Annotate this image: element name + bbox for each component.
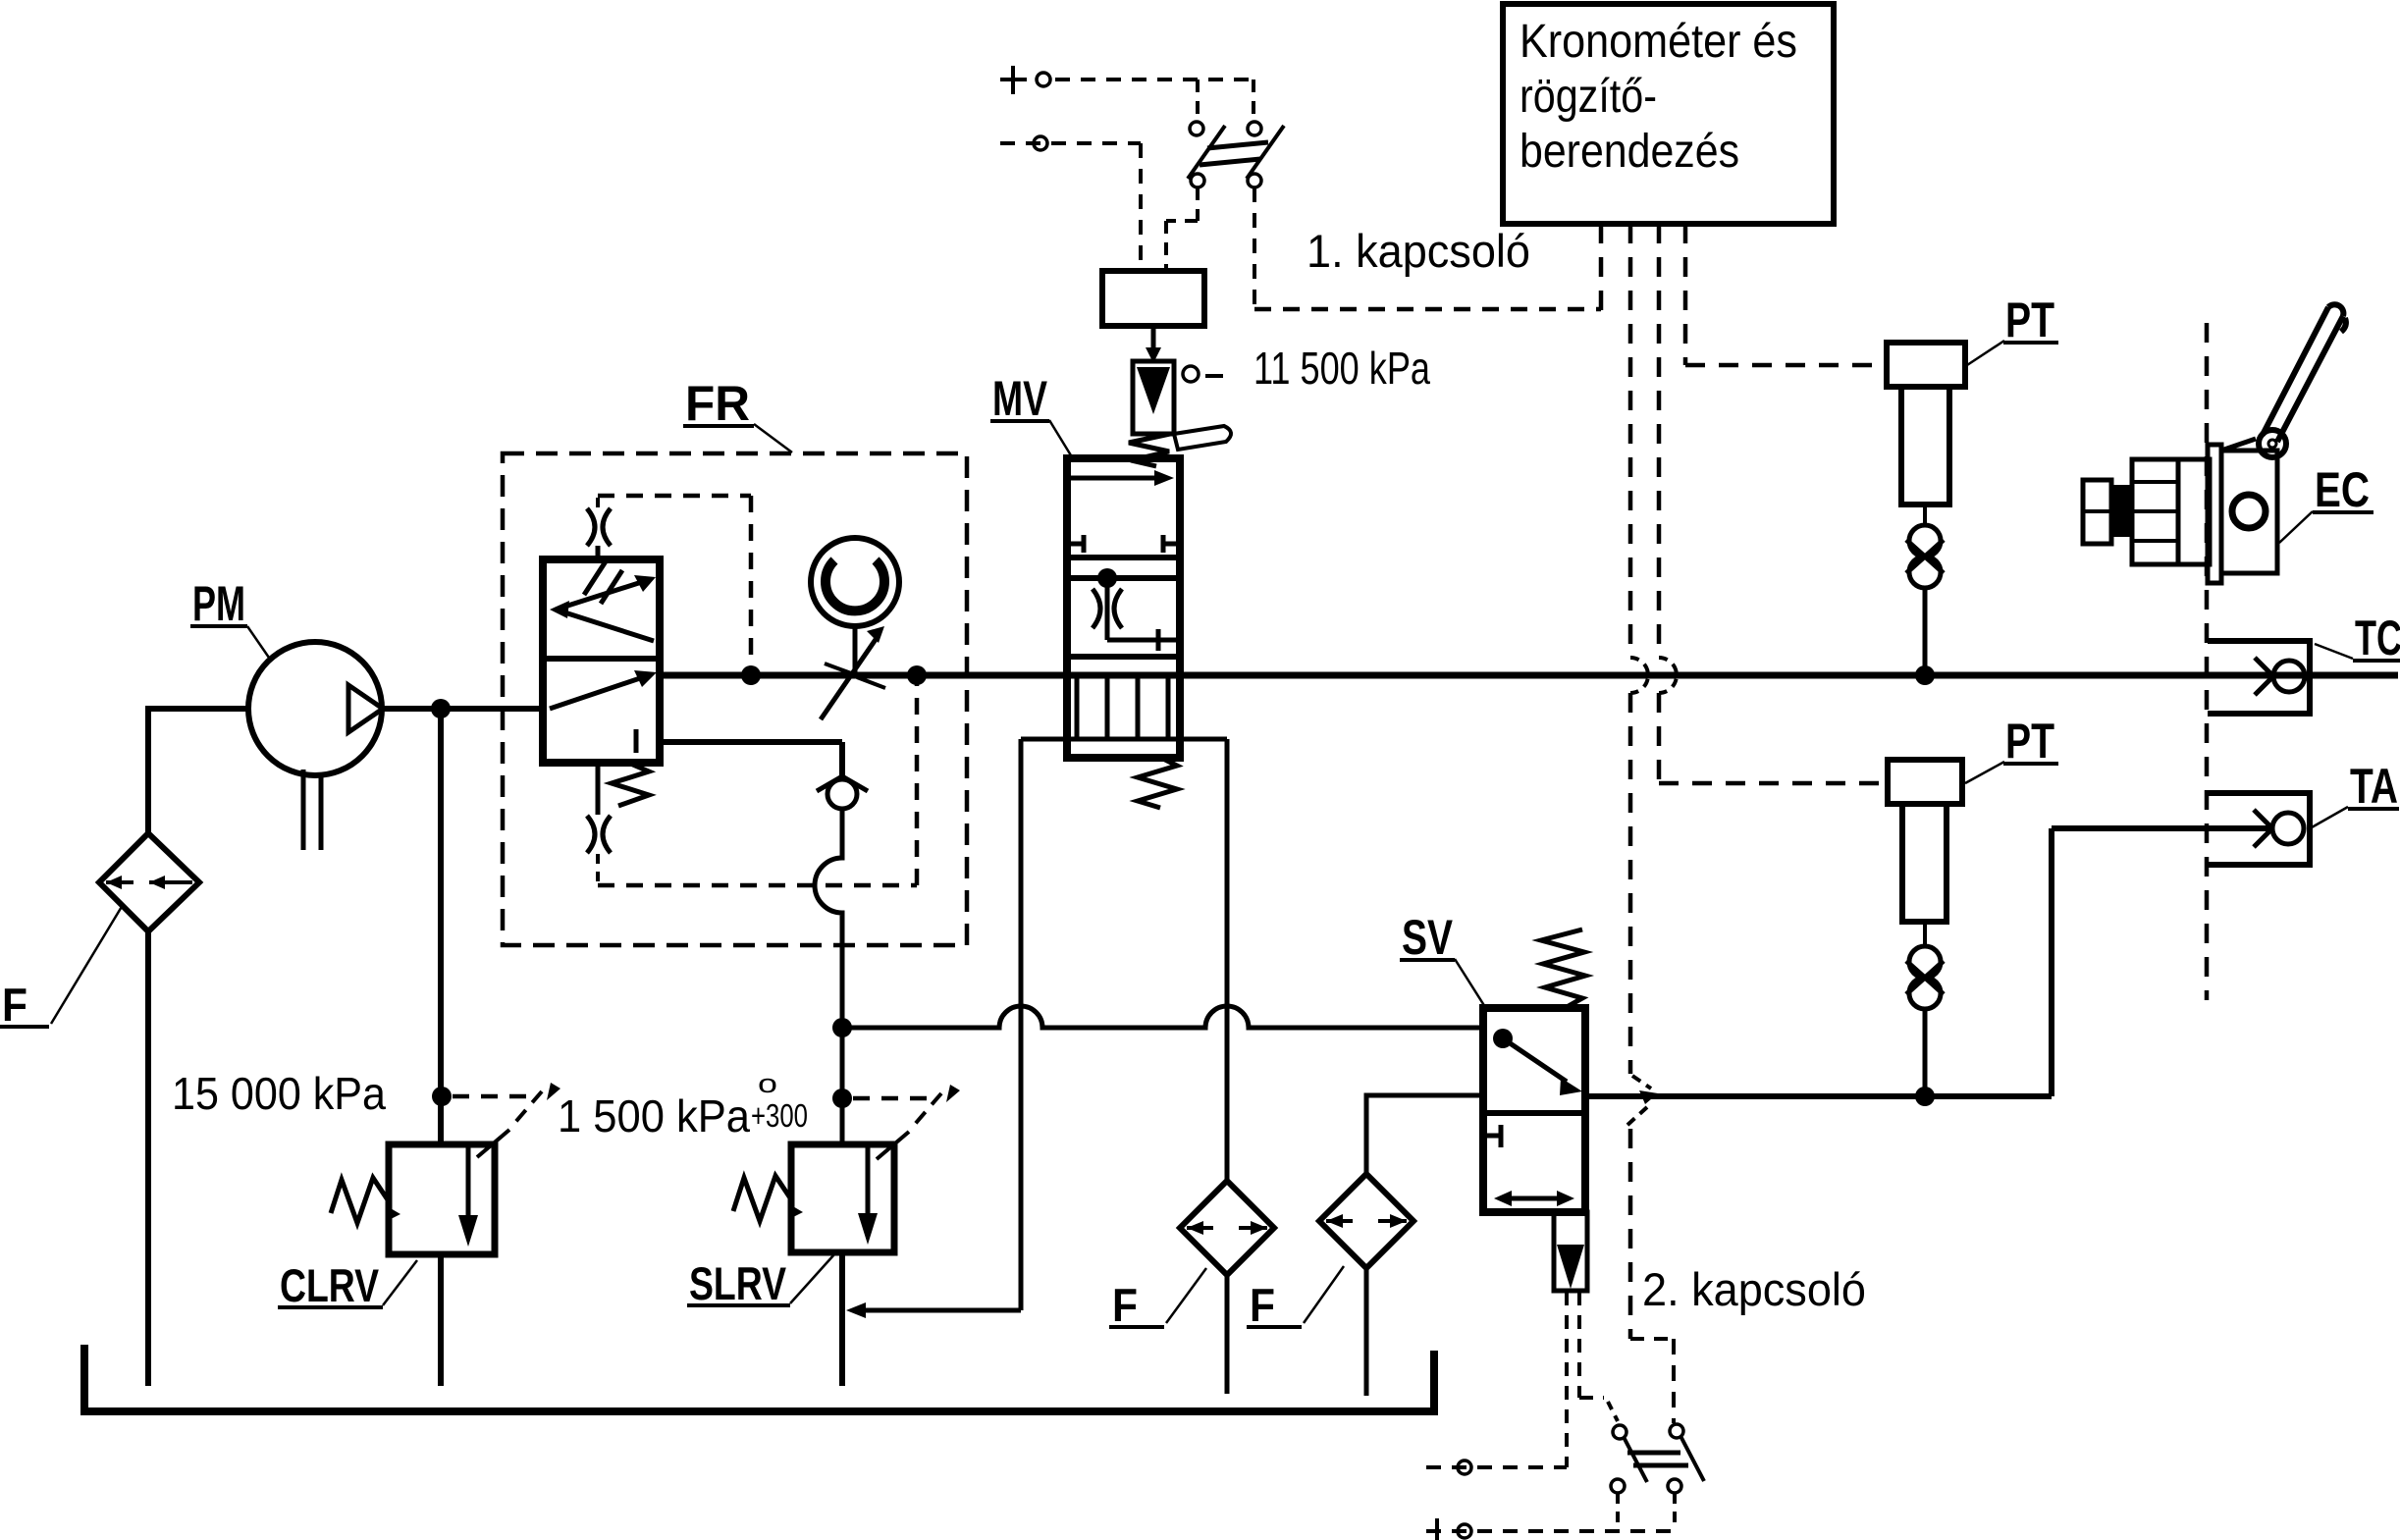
MV blocked cups [1077, 678, 1168, 739]
wire MV left drain [858, 739, 1021, 1310]
dashed arrow at SV output crossing [1632, 1076, 1651, 1089]
gauge adjust arrow [821, 638, 877, 719]
wire MV right drain [1225, 739, 1230, 1181]
switch 1 contacts [1190, 122, 1203, 135]
FR dashed enclosure box [503, 453, 967, 945]
switch 2 bridge bars [1627, 1453, 1688, 1465]
FR bottom restriction [587, 816, 611, 853]
chronometer dashed drop 3 with hop [1657, 224, 1662, 658]
gauge stem [853, 626, 858, 675]
EC threaded block [2132, 459, 2178, 564]
check valve in FR [827, 779, 857, 809]
FR spring below valve [612, 763, 649, 806]
FR bottom pilot dashed drop [596, 854, 600, 885]
SLRV adjust arrow dashed diagonal [911, 1093, 941, 1129]
EC neck [2111, 485, 2132, 537]
pump PM circle [248, 642, 382, 775]
chronometer dashed drop 4 [1685, 224, 1885, 365]
wire SLRV pilot dashed [853, 1096, 934, 1101]
PT upper isolator circles [1909, 525, 1941, 557]
node SLRV pilot junction [832, 1089, 852, 1108]
FR valve port2 tick [634, 729, 639, 753]
wire right filter to tank [1364, 1268, 1369, 1396]
wire pump suction horizontal [148, 706, 249, 712]
switch 1 right contact drop [1253, 187, 1256, 309]
filter F left diamond [1180, 1181, 1274, 1275]
SV solenoid below [1554, 1212, 1587, 1291]
wire SLRV to tank [839, 1250, 845, 1386]
chronometer box [1503, 4, 1834, 224]
MV bottom bar [1021, 737, 1227, 742]
svg-text:rögzítő-: rögzítő- [1520, 71, 1657, 123]
MV internal drop with restriction [1105, 581, 1110, 640]
node SV inlet [1493, 1029, 1513, 1048]
mechanical linkage dashed vertical [2205, 323, 2210, 1000]
FR pressure reducing valve body [543, 559, 660, 763]
switch 2 moving diagonals [1624, 1436, 1704, 1482]
filter F right diamond [1319, 1174, 1413, 1268]
wire filter to tank [145, 929, 151, 1386]
switch 1 rail to chronometer [1254, 307, 1601, 312]
node pump outlet junction [431, 699, 451, 718]
node CLRV pilot junction [432, 1087, 452, 1106]
FR inner dashed top rail [598, 494, 751, 499]
SLRV spring [733, 1176, 791, 1221]
FR valve divider [543, 656, 660, 662]
pump triangle [348, 685, 383, 732]
transducer PT upper head [1887, 343, 1965, 387]
wire CLRV branch vertical upper [438, 709, 444, 1146]
svg-text:PM: PM [192, 576, 245, 631]
valve MV body [1067, 458, 1180, 758]
FR top pilot stub [596, 546, 601, 560]
EC lever [2263, 307, 2343, 442]
TA poppet [2272, 813, 2304, 844]
MV pilot valve rect with triangle [1133, 361, 1174, 434]
wire FR port2 to check valve [658, 742, 842, 779]
svg-text:+300: +300 [751, 1097, 808, 1134]
FR top restriction [587, 508, 611, 546]
wire PT lower to SV line [1923, 1009, 1928, 1096]
node PT upper tap [1915, 665, 1935, 685]
SV divider [1483, 1110, 1585, 1116]
main pressure line [658, 672, 2398, 679]
CLRV adjust arrow solid across corner [477, 1130, 509, 1157]
adjuster circle and dash [1183, 366, 1199, 382]
FR valve top cell arrows [556, 580, 654, 641]
switch 1 second rail dashed [1000, 141, 1141, 145]
switch 1 rail plus [1000, 66, 1027, 94]
SV bottom double arrow [1502, 1196, 1567, 1201]
CLRV spring [331, 1178, 389, 1223]
node secondary line junction [832, 1018, 852, 1037]
MV spring below [1138, 758, 1177, 808]
PT lower isolator circles [1909, 946, 1941, 978]
svg-text:MV: MV [992, 371, 1047, 426]
MV pilot spring [1129, 434, 1170, 466]
svg-text:SLRV: SLRV [689, 1257, 787, 1309]
relief valve SLRV box [791, 1144, 894, 1252]
EC body [2221, 451, 2277, 573]
wire CLRV to tank [438, 1254, 444, 1386]
relief valve CLRV box [389, 1144, 495, 1254]
svg-text:TC: TC [2355, 611, 2400, 665]
chronometer dashed drop 2 with hop [1628, 224, 1633, 658]
MV dividers [1067, 558, 1180, 578]
svg-text:FR: FR [685, 376, 750, 431]
switch 1 moving diagonals [1188, 126, 1284, 179]
wire PT upper to main line [1923, 588, 1928, 675]
gauge on FR output [811, 538, 899, 626]
FR valve top cell slash marks [584, 561, 622, 604]
svg-text:EC: EC [2315, 462, 2370, 517]
EC flange [2208, 445, 2221, 583]
wire pump outlet to FR [382, 706, 545, 712]
svg-text:F: F [1112, 1279, 1138, 1331]
check valve TA box [2208, 793, 2310, 865]
solenoid coil MV [1102, 271, 1204, 326]
FR valve bottom cell arrow [550, 676, 646, 709]
wire CLRV pilot dashed [453, 1094, 535, 1099]
svg-text:Kronométer és: Kronométer és [1520, 16, 1797, 68]
switch 2 lower drops [1618, 1493, 1675, 1528]
switch 1 left drop to coil [1139, 143, 1143, 271]
svg-text:o: o [758, 1069, 777, 1098]
svg-text:TA: TA [2350, 759, 2398, 814]
TC poppet [2273, 661, 2305, 692]
SLRV inner line and arrow [866, 1144, 871, 1215]
node FR pilot tap [741, 665, 761, 685]
filter F suction arrows [106, 880, 192, 884]
PT lower body [1902, 804, 1947, 922]
PT lower stem [1923, 922, 1927, 946]
filter F suction diamond [99, 833, 199, 931]
svg-text:15 000 kPa: 15 000 kPa [172, 1068, 386, 1119]
pump drain lines [303, 770, 321, 850]
SLRV adjust arrow solid across corner [877, 1132, 909, 1159]
FR inner dashed bottom rail [598, 883, 917, 888]
chronometer dashed drop 1 [1599, 224, 1604, 312]
FR top pilot dashed stub [596, 495, 600, 507]
svg-text:berendezés: berendezés [1520, 126, 1739, 178]
PT upper stem [1923, 504, 1927, 526]
wire secondary line with hops [842, 1006, 1485, 1028]
check valve TC box [2208, 641, 2310, 714]
svg-text:1 500 kPa: 1 500 kPa [558, 1090, 750, 1142]
svg-text:11 500 kPa: 11 500 kPa [1253, 343, 1430, 394]
MV port stubs [1067, 535, 1180, 553]
CLRV inner line and arrow [466, 1144, 471, 1217]
FR bottom pilot stub [596, 763, 601, 815]
switch 1 top rail dashed [1055, 78, 1253, 81]
svg-text:SV: SV [1402, 910, 1454, 965]
SV diagonal arrow [1503, 1038, 1567, 1082]
MV manual lever flag [1174, 426, 1231, 450]
switch 2 rail B with plus [1426, 1529, 1675, 1533]
MV top cell flow line [1067, 476, 1164, 481]
wire right filter to SV [1366, 1095, 1485, 1174]
wire SV output [1585, 828, 2273, 1096]
switch 2 contacts [1613, 1425, 1627, 1439]
switch 1 contact drop to coil [1166, 187, 1198, 271]
hand pump EC plug [2083, 480, 2111, 544]
FR inner dashed right riser [915, 681, 920, 885]
wire check valve down with hop over pilot rail [815, 807, 842, 1146]
svg-text:F: F [1250, 1279, 1275, 1331]
svg-text:1. kapcsoló: 1. kapcsoló [1307, 225, 1530, 277]
MV divider lower [1067, 654, 1180, 660]
svg-text:F: F [2, 979, 27, 1031]
valve SV spring [1541, 929, 1585, 1007]
svg-text:PT: PT [2005, 714, 2054, 769]
switch 1 bridge bars [1200, 142, 1268, 165]
SV solenoid dashed wires to switch 2 [1565, 1292, 1569, 1467]
transducer PT lower head [1888, 760, 1962, 804]
wire suction vertical to filter [145, 706, 151, 835]
node PT lower tap [1915, 1087, 1935, 1106]
node MV internal [1097, 568, 1117, 588]
svg-text:PT: PT [2005, 292, 2054, 347]
node FR bottom pilot tap [907, 665, 927, 685]
svg-text:2. kapcsoló: 2. kapcsoló [1642, 1263, 1866, 1315]
FR inner dashed right drop [749, 496, 754, 669]
SV lower cell tick [1483, 1125, 1501, 1147]
switch 1 rail drops [1198, 80, 1253, 120]
EC pivot [2259, 430, 2286, 457]
svg-text:CLRV: CLRV [280, 1259, 380, 1311]
coil stem with arrow [1151, 326, 1156, 351]
PT upper body [1901, 387, 1949, 504]
EC spacer block [2178, 459, 2210, 564]
CLRV adjust arrow dashed diagonal [511, 1091, 542, 1127]
tank [84, 1345, 1434, 1411]
switch 2 rail A [1426, 1465, 1567, 1469]
valve SV body [1483, 1008, 1585, 1212]
